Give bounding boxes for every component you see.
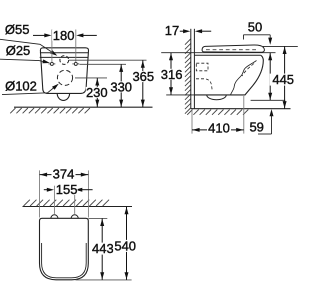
front view: outlet pipe semicircle below body xyxy=(57,93,69,100)
outlet hole D102 dashed circle xyxy=(57,70,72,85)
svg-text:230: 230 xyxy=(86,85,108,100)
bottom view: wall line xyxy=(23,206,133,208)
hidden outlet dashed pipe xyxy=(196,79,212,91)
front view: toilet body outline xyxy=(40,48,88,94)
bottom view: body outline (top view of bowl) xyxy=(40,218,89,279)
leader for D25 xyxy=(0,59,48,62)
svg-text:Ø25: Ø25 xyxy=(6,43,31,58)
dim 443 line xyxy=(101,218,103,279)
front view: seat joint line lower xyxy=(40,56,88,58)
dim 180 text xyxy=(52,30,75,41)
side view: seat lid (wedge shaped, thicker at front) xyxy=(202,45,264,52)
dim 540 line xyxy=(126,207,128,280)
dim 180: extension lines xyxy=(51,30,53,63)
hidden fitting dashed rect xyxy=(196,63,208,71)
dim 410: extension lines xyxy=(191,110,193,134)
fixing hole left xyxy=(50,62,53,65)
dim 330 line xyxy=(120,64,122,107)
dim 230: extension line from outlet center xyxy=(75,77,107,79)
dim 180: outside arrows xyxy=(33,34,45,36)
side view: bowl bottom ext line through wall xyxy=(166,94,194,96)
dim 445 line xyxy=(284,46,286,108)
svg-text:374: 374 xyxy=(53,166,75,181)
bottom extension line xyxy=(76,279,132,281)
side view: floor hatching xyxy=(187,110,192,115)
side view: hidden water line dashed xyxy=(242,64,254,77)
svg-text:59: 59 xyxy=(249,119,263,134)
bottom view: wall hatching above line xyxy=(24,200,30,206)
dim 330: extension line from fixing holes xyxy=(80,63,127,65)
svg-text:410: 410 xyxy=(208,121,230,136)
dim 155: outside arrows xyxy=(44,189,48,191)
fixing hole right xyxy=(74,62,77,65)
dim 316 line xyxy=(170,53,172,95)
svg-text:50: 50 xyxy=(248,19,262,34)
lid top extension line to right xyxy=(263,45,298,47)
side view: wall lines xyxy=(190,29,192,109)
svg-text:155: 155 xyxy=(56,182,78,197)
bottom view: inner rim line xyxy=(42,243,87,278)
inner right dim line (rim to outlet bottom) xyxy=(269,53,271,101)
side view: rim/lid-bottom extension line (316 top, to right) xyxy=(161,52,275,54)
side view: floor line xyxy=(191,108,291,110)
side view: outlet arc under bowl xyxy=(207,95,227,100)
ground line under front view xyxy=(14,106,153,108)
front view: seat joint line upper xyxy=(40,52,89,54)
svg-text:180: 180 xyxy=(53,28,75,43)
side view: bowl outline xyxy=(194,55,263,95)
dim 17 outside arrows xyxy=(180,30,184,32)
dim 230 line xyxy=(96,78,98,107)
dim 365: extension line from D55 center xyxy=(69,59,147,61)
dim 365 line xyxy=(142,60,144,107)
ground hatching xyxy=(10,108,15,113)
svg-text:316: 316 xyxy=(161,67,183,82)
leader for D55 xyxy=(0,39,55,54)
side view: wall hatching xyxy=(185,39,191,45)
side view: rim top line xyxy=(194,54,260,56)
hole D55 dashed circle xyxy=(60,56,69,65)
svg-text:365: 365 xyxy=(132,69,154,84)
dim 59: outside arrow from below floor xyxy=(270,109,274,116)
lid seat dashed line xyxy=(206,49,258,51)
dim 50: line with down arrow xyxy=(244,34,271,36)
outlet bottom extension line xyxy=(251,99,286,101)
side view: bowl interior curve xyxy=(231,61,257,95)
dim 374: extension lines xyxy=(39,170,41,217)
svg-text:330: 330 xyxy=(110,79,132,94)
dim 374 line xyxy=(40,174,89,176)
svg-text:443: 443 xyxy=(92,241,114,256)
dim 155: extension lines xyxy=(53,186,55,214)
svg-text:540: 540 xyxy=(114,238,136,253)
dim 410 line xyxy=(192,129,244,131)
svg-text:Ø102: Ø102 xyxy=(5,79,37,94)
svg-text:445: 445 xyxy=(272,72,294,87)
bottom view: fixing bolt bumps xyxy=(51,215,58,218)
dim 443: extension line at body top right xyxy=(89,217,108,219)
svg-text:17: 17 xyxy=(165,23,179,38)
leader for D102 xyxy=(2,86,57,95)
svg-text:Ø55: Ø55 xyxy=(5,22,30,37)
